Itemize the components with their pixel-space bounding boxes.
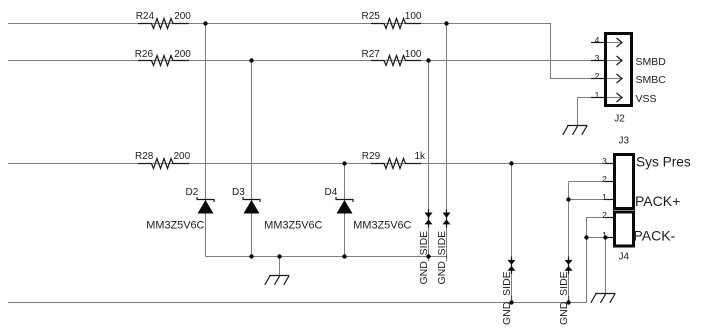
svg-text:R26: R26	[135, 49, 154, 60]
wire V3 (W3 down through D4 to gnd rail)	[344, 164, 346, 257]
svg-text:R25: R25	[362, 11, 381, 22]
svg-text:GND_SIDE: GND_SIDE	[558, 271, 570, 325]
svg-text:PACK+: PACK+	[635, 193, 680, 209]
svg-text:D3: D3	[232, 187, 245, 198]
off-page connector GND_SIDE (x=511.5)	[501, 257, 516, 326]
svg-text:200: 200	[174, 11, 191, 22]
svg-text:D4: D4	[325, 187, 338, 198]
node junction W1/V5	[444, 21, 448, 25]
svg-text:VSS: VSS	[636, 93, 657, 105]
wire gnd rail (y=256.5)	[206, 256, 447, 258]
node junction W2/V2	[249, 58, 253, 62]
node junction W3/V6	[509, 161, 513, 165]
svg-text:4: 4	[595, 35, 600, 45]
node junction J3 pin1/V7	[566, 197, 570, 201]
connector J3	[602, 136, 633, 209]
svg-text:PACK-: PACK-	[634, 228, 676, 244]
svg-text:3: 3	[595, 53, 600, 63]
node junction rail/gnd stem	[277, 254, 281, 258]
svg-text:200: 200	[174, 49, 191, 60]
diode D3 (zener MM3Z5V6C)	[232, 187, 323, 232]
ground (diode rail, earth)	[265, 276, 289, 285]
off-page connector GND_SIDE (from W1, x=446.5)	[436, 209, 451, 284]
wire V1 (W1 down through D2 to gnd rail)	[205, 24, 207, 257]
svg-text:3: 3	[602, 156, 607, 166]
wire V4 (W2 junction down to GND_SIDE, x=428.5)	[428, 61, 430, 257]
resistor R28	[135, 151, 191, 169]
svg-text:2: 2	[595, 71, 600, 81]
off-page connector GND_SIDE (x=568.5)	[558, 257, 573, 326]
node junction W2/V4	[426, 58, 430, 62]
svg-text:J3: J3	[619, 136, 630, 147]
diode D2 (zener MM3Z5V6C)	[146, 187, 214, 232]
node junction W4/V7	[566, 300, 570, 304]
wire J4 pin1 stub	[587, 237, 614, 239]
wire V5 (W1 junction down to GND_SIDE, x=446.5)	[446, 24, 448, 257]
svg-text:200: 200	[174, 151, 191, 162]
node junction W3/V3	[342, 161, 346, 165]
diode D4 (zener MM3Z5V6C)	[325, 187, 412, 232]
resistor R29	[362, 151, 426, 169]
wire W2 (second net, y=60.5)	[8, 60, 605, 62]
node junction W4/V6	[509, 300, 513, 304]
svg-text:R28: R28	[135, 151, 154, 162]
node junction J4 pin1/V8	[584, 235, 588, 239]
wire rail ground stem	[279, 257, 281, 276]
svg-text:D2: D2	[186, 187, 199, 198]
node junction rail/V3	[342, 254, 346, 258]
node junction W1/V1	[203, 21, 207, 25]
wire W1 (top net, y=23.5)	[8, 24, 605, 79]
svg-text:100: 100	[405, 11, 422, 22]
node junction rail/V4	[426, 254, 430, 258]
svg-text:Sys Pres: Sys Pres	[636, 154, 691, 169]
ground (J4, earth)	[591, 294, 615, 303]
svg-text:R27: R27	[362, 49, 381, 60]
svg-text:2: 2	[602, 174, 607, 184]
connector J2	[591, 34, 632, 125]
wire J2 ground stem	[577, 98, 579, 126]
wire J4 ground stem	[605, 238, 607, 294]
node junction rail/V2	[249, 254, 253, 258]
wire W3 (third net, y=163.5)	[8, 163, 613, 165]
svg-text:2: 2	[602, 210, 607, 220]
svg-text:SMBD: SMBD	[636, 56, 667, 68]
ground (J2, earth)	[563, 126, 587, 135]
connector J4	[602, 210, 633, 263]
svg-text:J2: J2	[614, 114, 625, 125]
svg-text:GND_SIDE: GND_SIDE	[436, 231, 448, 285]
svg-text:MM3Z5V6C: MM3Z5V6C	[146, 220, 204, 232]
svg-text:GND_SIDE: GND_SIDE	[501, 271, 513, 325]
resistor R27	[362, 49, 422, 66]
svg-text:MM3Z5V6C: MM3Z5V6C	[264, 220, 322, 232]
svg-text:R24: R24	[136, 11, 155, 22]
svg-text:1: 1	[595, 90, 600, 100]
resistor R26	[135, 49, 192, 66]
resistor R25	[362, 11, 422, 29]
svg-text:SMBC: SMBC	[636, 74, 667, 86]
wire J2 pin1 to ground	[578, 97, 606, 99]
svg-text:1: 1	[602, 192, 607, 202]
wire J3 pin1 stub	[569, 199, 614, 201]
wire V2 (W2 down through D3 to gnd rail)	[251, 61, 253, 257]
off-page connector GND_SIDE (from W2, x=428.5)	[418, 209, 433, 284]
svg-text:J4: J4	[619, 252, 630, 263]
resistor R24	[136, 11, 192, 29]
svg-text:1k: 1k	[415, 151, 427, 162]
svg-text:R29: R29	[362, 151, 381, 162]
wire V6 (W3 junction down to W4, x=511.5)	[511, 164, 513, 303]
svg-text:MM3Z5V6C: MM3Z5V6C	[353, 220, 411, 232]
svg-text:100: 100	[405, 49, 422, 60]
wire W4 (bottom net, y=302.5)	[8, 218, 613, 303]
node junction J4 pin1/gnd stem	[603, 235, 607, 239]
wire V7 (J3 pin2/pin1 down to W4, x=568.5)	[568, 182, 570, 303]
wire J3 pin2 stub	[569, 181, 614, 183]
